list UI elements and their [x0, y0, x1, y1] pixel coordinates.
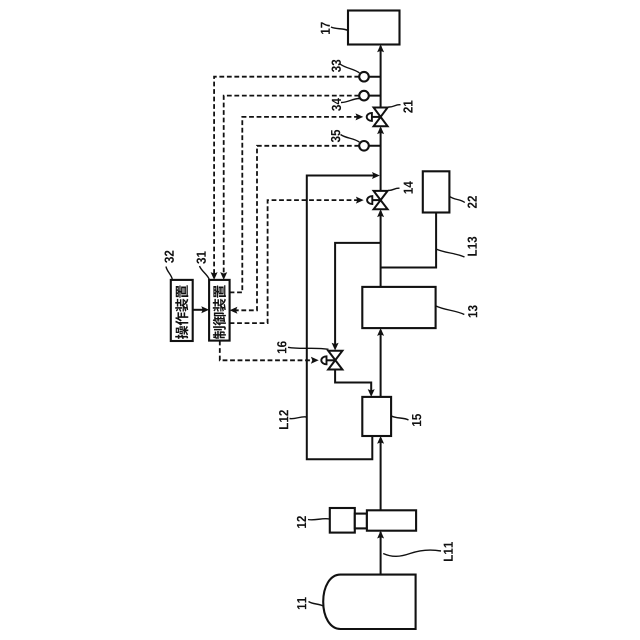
label 22 — [468, 196, 477, 208]
leader 15 — [392, 416, 409, 420]
leader 31 — [200, 266, 210, 280]
sensor 34 circle — [359, 91, 369, 101]
label 33 — [332, 60, 341, 72]
sensor 33 circle — [359, 72, 369, 82]
dashed wire sensor33 to controller31 — [214, 77, 359, 277]
wire sensor34 link — [364, 95, 381, 97]
leader 12 — [308, 519, 330, 520]
leader 22 — [450, 197, 465, 203]
label L11 — [444, 542, 453, 561]
wire main line valve21 to box17 — [380, 46, 382, 108]
wire main line box15 to box13 — [380, 330, 382, 397]
leader L12 — [290, 417, 307, 419]
leader 13 — [436, 306, 464, 315]
wire main line pump12 to box15 — [380, 438, 382, 510]
wire branch to valve16 — [335, 243, 381, 348]
label 21 — [403, 101, 412, 113]
leader 21 — [388, 105, 400, 107]
label 14 — [404, 181, 413, 193]
box 15 — [362, 397, 391, 436]
pump 12 motor box — [330, 508, 355, 533]
sensor 35 circle — [359, 141, 369, 151]
dashed wire controller31 to valve14 — [230, 200, 360, 323]
leader 32 — [166, 267, 172, 280]
valve 14 — [374, 191, 388, 209]
wire main line valve14 to valve21 — [380, 128, 382, 191]
dashed wire controller31 to valve21 — [230, 117, 360, 293]
label 17 — [321, 22, 330, 34]
box 32 operation device — [171, 280, 193, 341]
label 15 — [412, 414, 421, 426]
dashed wire sensor34 to controller31 — [224, 96, 360, 277]
label 12 — [297, 516, 306, 528]
leader 33 — [340, 64, 360, 73]
leader 34 — [341, 98, 360, 102]
valve 16 — [328, 351, 342, 370]
tank 11 — [323, 575, 415, 629]
label 35 — [331, 130, 340, 142]
dashed wire controller31 to valve16 — [220, 341, 315, 361]
leader 14 — [388, 188, 400, 190]
label 11 — [297, 597, 306, 609]
wire sensor35 link — [364, 145, 381, 147]
pump 12 body — [367, 510, 416, 530]
text control device kanji — [213, 326, 226, 339]
wire L12 bypass line — [307, 176, 377, 460]
label 32 — [165, 251, 174, 263]
label L12 — [279, 410, 288, 429]
wire L13 box22 to main line — [381, 213, 437, 268]
wire sensor33 link — [364, 76, 381, 78]
leader 16 — [288, 347, 329, 349]
wire main line tank11 to pump12 — [380, 532, 382, 575]
box 13 — [362, 287, 435, 328]
valve 21 — [374, 108, 388, 127]
box 17 — [348, 11, 400, 45]
wire main line box13 to valve14 — [380, 211, 382, 287]
dashed wire sensor35 to controller31 — [233, 146, 359, 310]
leader 17 — [331, 27, 348, 31]
wire valve16 to box15 — [335, 370, 371, 395]
text operation device kanji — [175, 326, 188, 339]
leader 11 — [309, 602, 325, 607]
box 22 — [423, 171, 450, 212]
wire box32 to box31 — [193, 309, 206, 311]
label 16 — [277, 341, 286, 353]
label 34 — [332, 98, 341, 111]
label L13 — [468, 237, 477, 256]
label 31 — [197, 251, 206, 263]
label 13 — [468, 305, 477, 317]
box 31 control device — [209, 280, 230, 341]
pump 12 shaft — [355, 514, 367, 529]
leader L13 — [436, 249, 465, 257]
leader 35 — [341, 135, 360, 143]
leader L11 — [383, 550, 441, 556]
